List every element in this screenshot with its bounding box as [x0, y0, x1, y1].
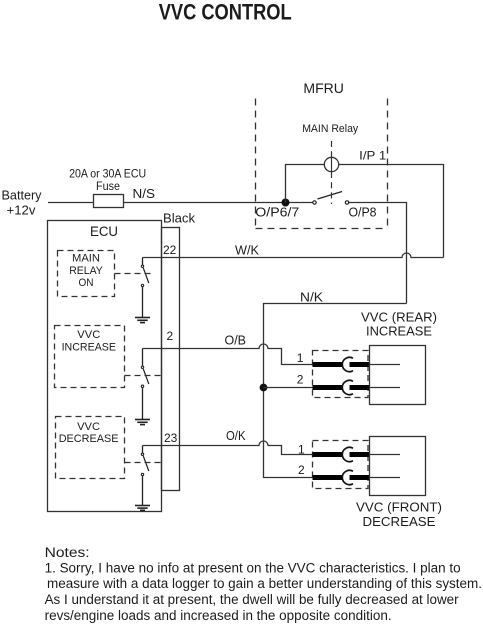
svg-text:MFRU: MFRU: [303, 81, 344, 96]
svg-text:As I understand it at present,: As I understand it at present, the dwell…: [45, 592, 460, 607]
svg-text:VVC: VVC: [77, 329, 100, 341]
svg-text:22: 22: [163, 243, 177, 257]
svg-text:N/K: N/K: [300, 290, 323, 305]
svg-text:+12v: +12v: [7, 203, 36, 218]
solenoid box VVC (FRONT) DECREASE: [370, 437, 426, 496]
svg-text:RELAY: RELAY: [69, 265, 103, 277]
svg-text:Fuse: Fuse: [96, 181, 120, 193]
battery label: [2, 188, 42, 218]
svg-text:2: 2: [298, 463, 305, 477]
ECU box: [48, 221, 162, 512]
label VVC (REAR) INCREASE: [361, 310, 437, 339]
switch VVC DECREASE: [141, 446, 149, 506]
svg-text:ECU: ECU: [90, 223, 118, 239]
svg-text:O/P6/7: O/P6/7: [255, 205, 299, 220]
connector (dashed) VVC front: [313, 441, 369, 489]
fuse F1: [69, 169, 146, 208]
svg-text:VVC CONTROL: VVC CONTROL: [159, 0, 292, 24]
coil contact front pin 2: [313, 470, 370, 484]
switch MAIN RELAY ON: [141, 258, 149, 318]
svg-text:DECREASE: DECREASE: [363, 514, 436, 529]
notes: [45, 545, 482, 623]
coil contact front pin 1: [313, 447, 370, 461]
svg-text:DECREASE: DECREASE: [59, 433, 119, 445]
svg-text:VVC: VVC: [77, 421, 100, 433]
wire coil to battery node: [286, 165, 325, 203]
coil contact rear pin 2: [313, 380, 370, 394]
MFRU enclosure dashed: [256, 81, 388, 229]
relay coil MAIN Relay: [302, 123, 358, 204]
svg-text:23: 23: [164, 431, 178, 445]
svg-text:O/B: O/B: [225, 333, 247, 348]
svg-text:ON: ON: [79, 277, 94, 289]
svg-text:MAIN: MAIN: [72, 253, 100, 265]
switch VVC INCREASE: [141, 349, 149, 420]
dashed box MAIN RELAY ON: [58, 251, 115, 297]
ground (MAIN RELAY switch): [135, 318, 150, 323]
node N/K junction dot: [260, 384, 268, 392]
label VVC (FRONT) DECREASE: [356, 500, 442, 530]
wire I/P 1: [339, 165, 444, 258]
svg-text:2: 2: [297, 373, 304, 387]
wire N/K to rear pin 2: [264, 387, 313, 389]
wire N/K: [264, 304, 407, 478]
svg-text:W/K: W/K: [235, 243, 259, 258]
coil contact rear pin 1: [313, 357, 370, 371]
node O/P6/7 junction dot: [282, 199, 290, 207]
svg-text:INCREASE: INCREASE: [366, 324, 432, 339]
svg-text:1: 1: [297, 351, 304, 365]
connector strip Black: [162, 211, 196, 491]
wire O/B with hop over N/K: [143, 344, 313, 365]
wire W/K with hop over O/P8: [143, 253, 444, 258]
svg-text:measure with a data logger to: measure with a data logger to gain a bet…: [47, 576, 482, 591]
dashed box VVC INCREASE: [55, 326, 125, 388]
svg-text:INCREASE: INCREASE: [62, 342, 116, 354]
wire battery to relay contact: [48, 202, 313, 204]
dashed control link MAIN RELAY: [115, 273, 155, 275]
dashed control link VVC DECREASE: [125, 462, 164, 464]
svg-text:VVC (REAR): VVC (REAR): [361, 310, 437, 325]
solenoid box VVC (REAR) INCREASE: [370, 346, 426, 405]
svg-text:VVC (FRONT): VVC (FRONT): [356, 500, 442, 515]
dashed control link VVC INCREASE: [125, 375, 164, 377]
ground (VVC INCREASE switch): [135, 420, 150, 425]
svg-text:O/K: O/K: [226, 428, 246, 443]
svg-text:1. Sorry, I have no info at pr: 1. Sorry, I have no info at present on t…: [45, 560, 461, 575]
svg-text:2: 2: [167, 329, 174, 343]
svg-text:N/S: N/S: [133, 186, 156, 201]
svg-text:Battery: Battery: [2, 188, 42, 203]
wire O/P8: [349, 203, 407, 304]
svg-text:revs/engine loads and increase: revs/engine loads and increased in the o…: [45, 608, 392, 623]
wire O/K with hop over N/K: [143, 441, 313, 455]
svg-text:Notes:: Notes:: [45, 545, 90, 560]
svg-text:I/P 1: I/P 1: [359, 149, 386, 163]
svg-text:20A or 30A ECU: 20A or 30A ECU: [69, 169, 146, 181]
connector (dashed) VVC rear: [313, 351, 369, 398]
svg-text:Black: Black: [163, 211, 195, 226]
ground (VVC DECREASE switch): [135, 506, 150, 511]
svg-text:1: 1: [298, 442, 305, 456]
svg-text:MAIN Relay: MAIN Relay: [302, 123, 358, 135]
relay contact switch: [313, 192, 349, 205]
dashed box VVC DECREASE: [56, 417, 125, 479]
svg-text:O/P8: O/P8: [349, 205, 377, 220]
